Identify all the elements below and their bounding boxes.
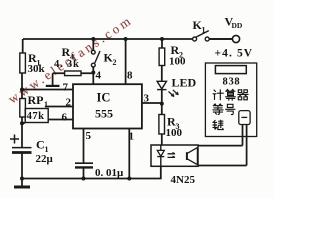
svg-text:22μ: 22μ [36, 153, 54, 165]
svg-text:0. 01μ: 0. 01μ [95, 167, 124, 179]
svg-text:555: 555 [95, 107, 113, 121]
svg-text:8: 8 [127, 70, 133, 82]
svg-text:100: 100 [169, 56, 186, 68]
svg-text:4. 3k: 4. 3k [54, 59, 80, 70]
svg-text:1: 1 [129, 131, 135, 143]
svg-text:6: 6 [62, 112, 68, 124]
svg-text:4N25: 4N25 [171, 174, 196, 186]
svg-text:7: 7 [63, 82, 69, 94]
svg-text:RP: RP [28, 93, 44, 107]
svg-text:1: 1 [202, 26, 206, 35]
svg-text:2: 2 [66, 97, 72, 109]
svg-text:C: C [36, 138, 45, 152]
svg-text:30k: 30k [28, 63, 46, 75]
svg-text:+4. 5V: +4. 5V [215, 48, 254, 60]
svg-text:3: 3 [144, 93, 150, 105]
svg-text:47k: 47k [27, 111, 45, 122]
svg-text:1: 1 [44, 100, 48, 109]
svg-text:LED: LED [172, 76, 197, 90]
svg-text:DD: DD [232, 21, 243, 30]
svg-text:IC: IC [97, 91, 111, 105]
svg-text:4: 4 [96, 70, 102, 82]
svg-text:2: 2 [113, 58, 117, 67]
svg-text:100: 100 [166, 127, 183, 139]
svg-text:838: 838 [223, 77, 241, 88]
svg-text:5: 5 [86, 130, 92, 142]
